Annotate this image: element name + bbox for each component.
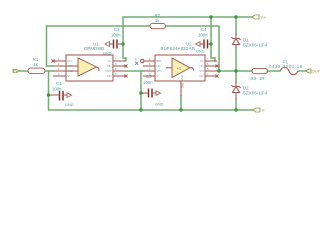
svg-text:BZX08-13-4: BZX08-13-4 xyxy=(243,91,268,96)
svg-text:V-: V- xyxy=(157,74,160,78)
op-amp U1 xyxy=(66,41,113,81)
no-connect X U1 left pin1 xyxy=(52,60,55,63)
wire U1 OUT to U2 IN xyxy=(126,70,143,72)
svg-text:OPA828ID: OPA828ID xyxy=(84,46,104,51)
global label IN xyxy=(13,68,19,73)
svg-text:GND: GND xyxy=(65,103,74,107)
wire top V+ rail xyxy=(123,16,252,18)
wire feedback top right segment xyxy=(166,25,219,27)
U2 pad pin xyxy=(180,75,184,96)
svg-text:OUT: OUT xyxy=(312,69,320,74)
svg-text:GND: GND xyxy=(196,50,205,54)
wire node down to C1 and bottom rail xyxy=(48,71,50,110)
global label V+ top right xyxy=(252,15,266,20)
svg-text:100n: 100n xyxy=(198,33,208,38)
svg-text:GND: GND xyxy=(180,75,184,81)
svg-text:NC: NC xyxy=(199,64,203,68)
global label OUT xyxy=(306,69,320,74)
junction C3 tap xyxy=(139,91,142,94)
svg-text:V+: V+ xyxy=(261,15,267,20)
svg-text:100n: 100n xyxy=(111,33,121,38)
wire zener column top xyxy=(235,17,237,35)
global label V- bottom right xyxy=(253,108,266,113)
resistor R1 xyxy=(28,68,45,73)
junction rail at U2 pad xyxy=(179,108,182,111)
wire V+ vertical into U2 xyxy=(211,17,215,61)
wire feedback top left segment xyxy=(47,25,151,27)
zener diode D2 xyxy=(232,83,268,100)
svg-text:V-: V- xyxy=(68,74,71,78)
fuse F1 xyxy=(269,60,303,75)
capacitor C2 xyxy=(103,27,122,56)
wire V+ vertical into U1 xyxy=(123,17,126,61)
svg-text:BW: BW xyxy=(157,59,162,63)
svg-text:VIN: VIN xyxy=(157,69,162,73)
svg-text:NC: NC xyxy=(199,74,203,78)
junction rail at C3 xyxy=(139,108,142,111)
svg-text:V-: V- xyxy=(262,108,266,113)
svg-text:2: 2 xyxy=(135,57,137,61)
svg-text:0438.7701.18: 0438.7701.18 xyxy=(269,64,303,69)
wire U2 pad to bottom rail xyxy=(180,95,182,110)
svg-text:V+: V+ xyxy=(200,59,204,63)
svg-text:NC: NC xyxy=(157,64,161,68)
no-connect X U2 right NC pins xyxy=(216,65,219,68)
wire zener column bottom xyxy=(235,99,237,111)
svg-text:C1: C1 xyxy=(56,81,62,86)
junction C4 tap xyxy=(209,42,212,45)
svg-text:BZX08-13-4: BZX08-13-4 xyxy=(243,43,268,48)
zener diode D1 xyxy=(232,35,268,49)
svg-text:V+: V+ xyxy=(108,59,112,63)
capacitor C1 xyxy=(50,81,74,107)
wire bottom rail xyxy=(49,109,254,111)
U2 pins left xyxy=(141,58,162,78)
junction C1 tap xyxy=(47,93,50,96)
svg-text:-IN: -IN xyxy=(68,64,72,68)
svg-text:+IN: +IN xyxy=(68,69,73,73)
junction C2 tap xyxy=(121,42,124,45)
resistor R3 xyxy=(252,68,268,73)
svg-text:GND: GND xyxy=(155,103,164,107)
svg-text:NC: NC xyxy=(107,74,111,78)
wire feedback vertical right to output node xyxy=(218,26,220,71)
svg-text:100n: 100n xyxy=(143,80,153,85)
svg-text:+1: +1 xyxy=(177,66,182,71)
junction top rail at D1 xyxy=(234,15,237,18)
resistor R2 xyxy=(150,23,166,28)
junction rail at D2 xyxy=(234,108,237,111)
svg-text:R3: R3 xyxy=(251,76,257,81)
wire R1 to +IN xyxy=(45,70,53,72)
U2 pins right xyxy=(199,58,217,78)
svg-text:C2: C2 xyxy=(114,27,120,32)
svg-text:BUF634AIDDAR: BUF634AIDDAR xyxy=(161,46,196,51)
wire fuse to OUT label xyxy=(298,70,306,72)
svg-text:NC: NC xyxy=(68,59,72,63)
wire node down to C3 and bottom rail xyxy=(140,71,142,110)
svg-text:NC: NC xyxy=(107,64,111,68)
wire zener column middle xyxy=(235,48,237,84)
junction top rail at U2 V+ xyxy=(209,15,212,18)
capacitor C4 xyxy=(196,27,211,54)
svg-text:OUT: OUT xyxy=(105,69,111,73)
wire U2 VO to R3 xyxy=(217,70,252,72)
svg-text:C4: C4 xyxy=(201,27,207,32)
no-connect X U1 right NC pins xyxy=(125,65,128,68)
junction zener at output wire xyxy=(234,69,237,72)
op-amp U2 xyxy=(155,41,205,81)
svg-text:PAD: PAD xyxy=(181,83,185,88)
U1 pins left xyxy=(53,58,72,78)
junction feedback at output wire xyxy=(217,69,220,72)
wire R3 to fuse xyxy=(267,70,280,72)
wire feedback vertical left to -IN xyxy=(47,26,54,66)
capacitor C3 xyxy=(142,74,164,107)
svg-text:1R: 1R xyxy=(259,76,265,81)
svg-text:IN: IN xyxy=(13,68,17,73)
wire input label to R1 xyxy=(19,70,28,72)
U1 pins right xyxy=(105,58,126,78)
svg-text:100n: 100n xyxy=(52,87,62,92)
